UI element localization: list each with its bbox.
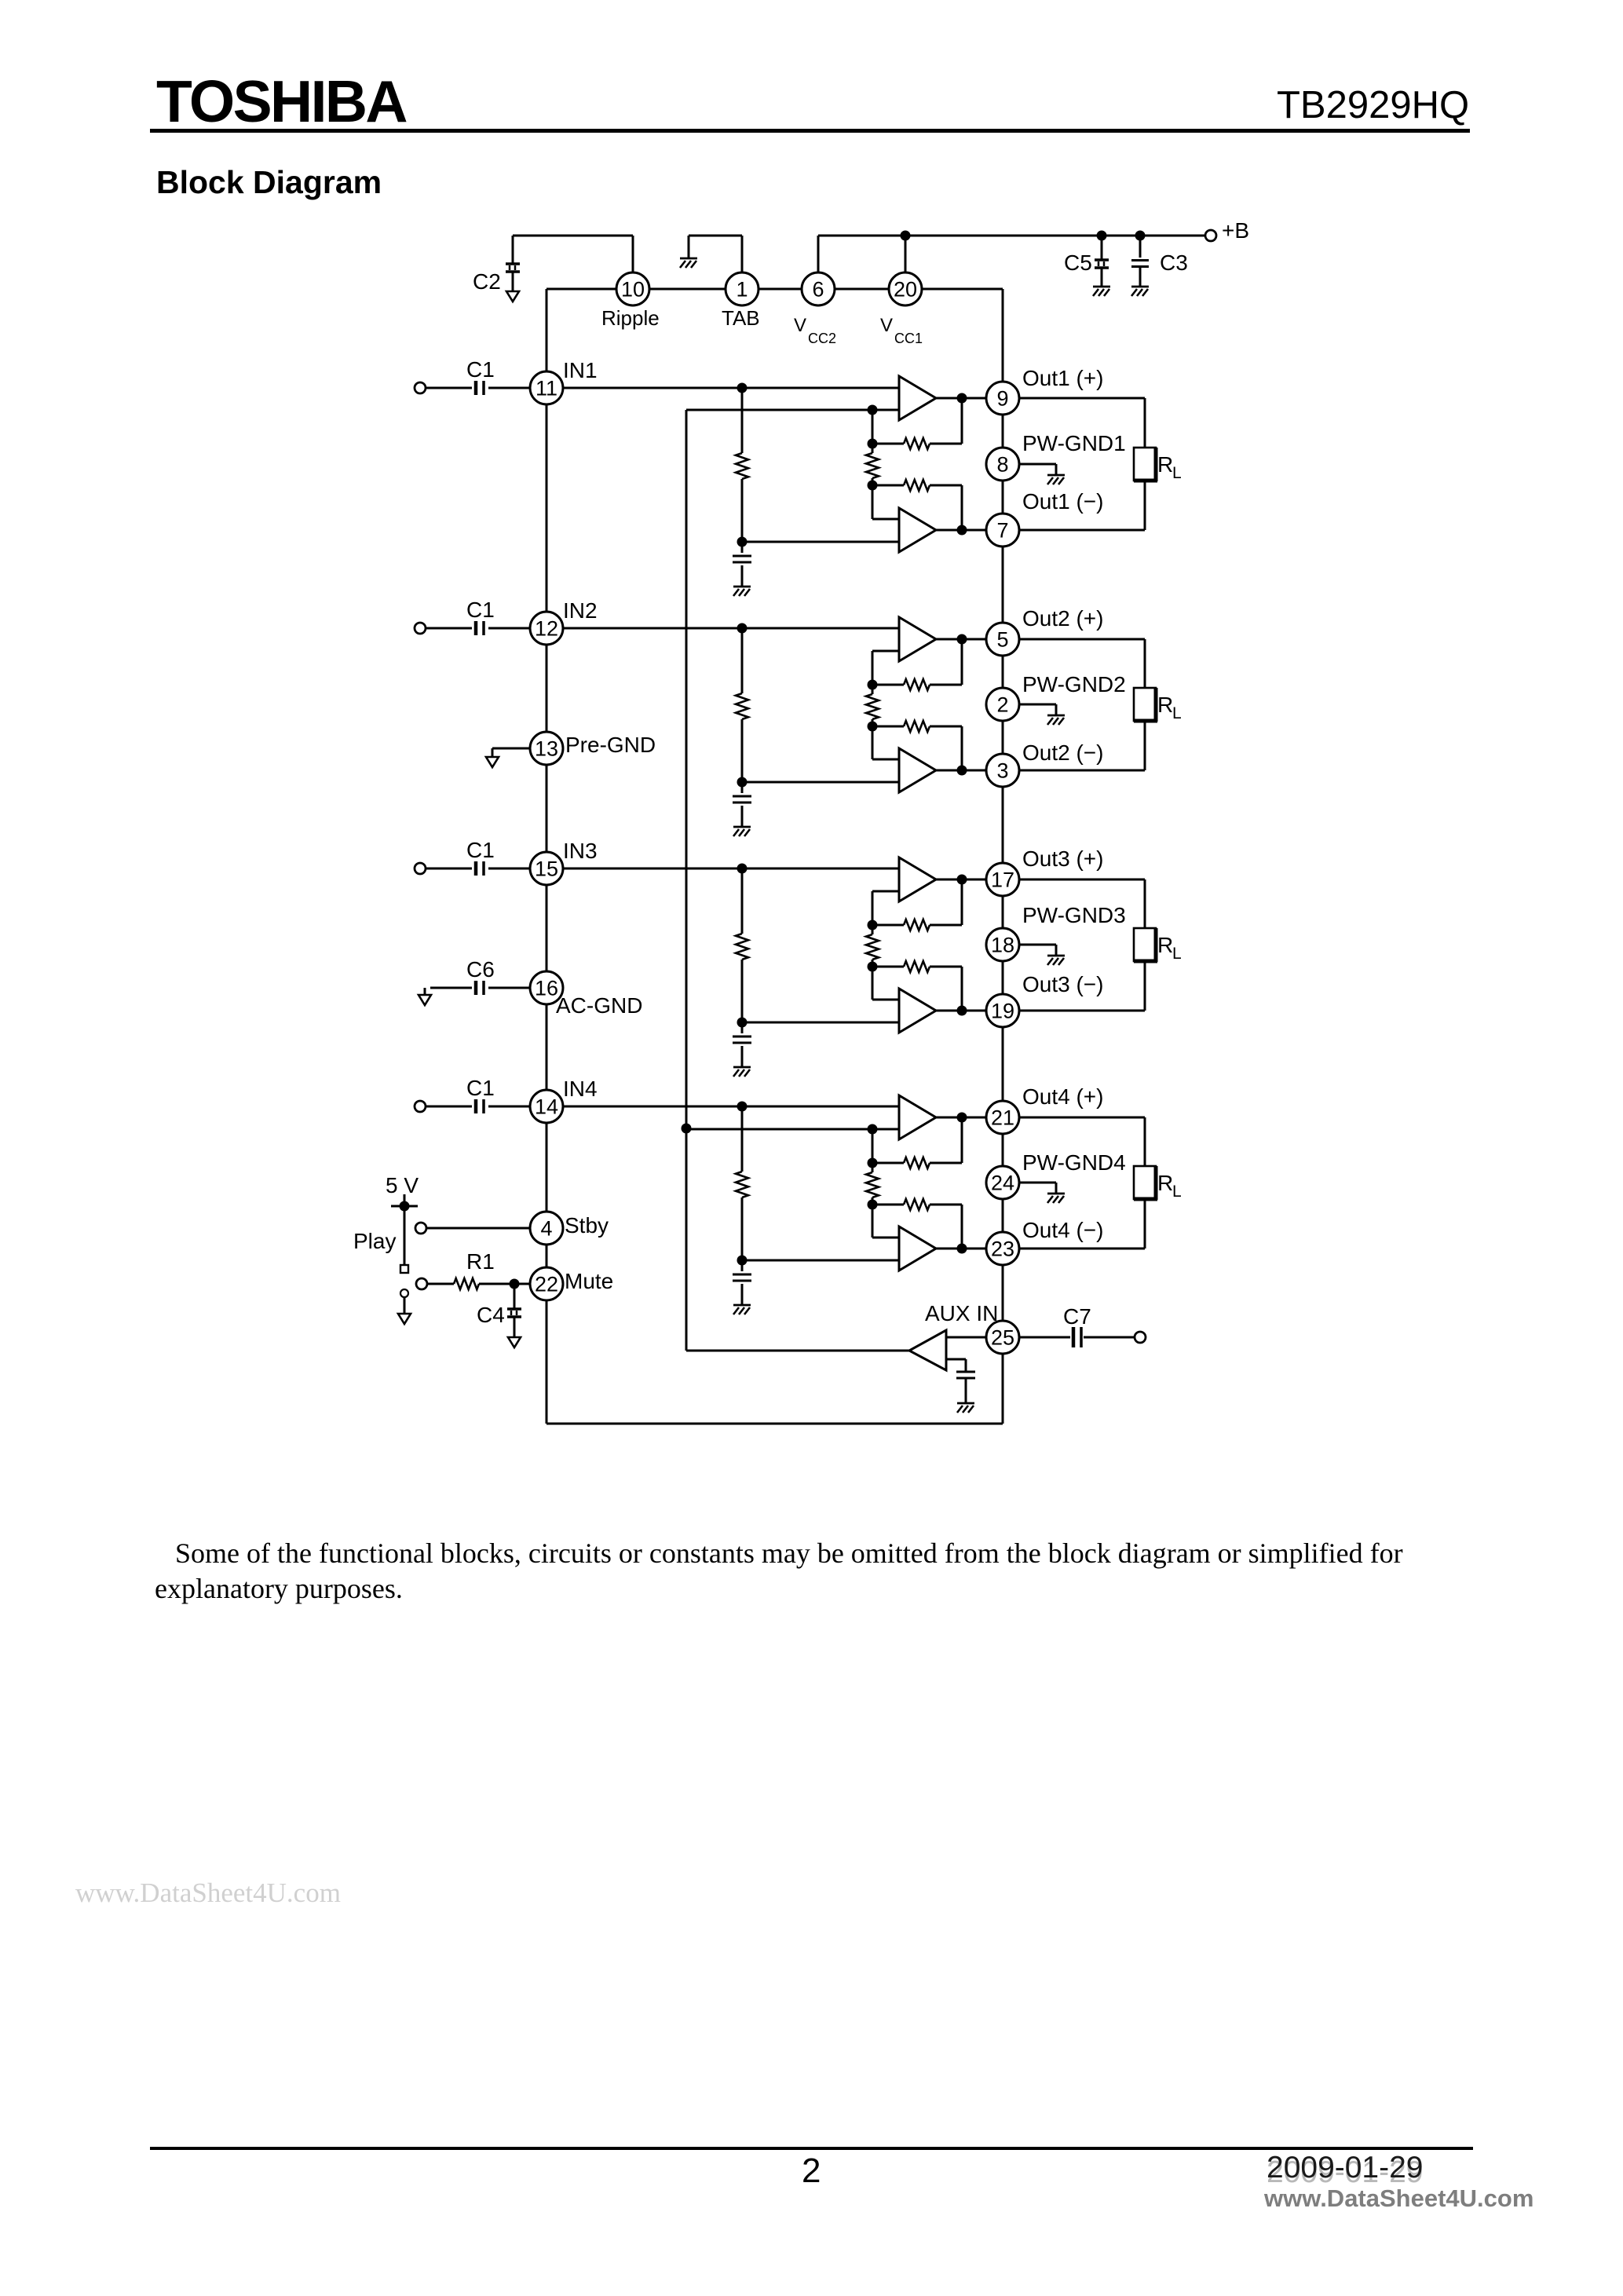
svg-text:Out1 (−): Out1 (−)	[1022, 489, 1103, 514]
svg-text:C3: C3	[1160, 250, 1188, 275]
label Out2 (+)	[1022, 606, 1103, 631]
wire AUX cap stub	[946, 1359, 966, 1371]
arrow to ground (AC-GND)	[419, 995, 431, 1005]
wire pin25 to AUX amp	[946, 1336, 986, 1339]
label IN2	[563, 598, 598, 623]
svg-text:C6: C6	[466, 957, 495, 982]
resistor RL1	[1134, 448, 1157, 481]
svg-text:2: 2	[996, 693, 1008, 717]
op-amp AUX	[909, 1330, 946, 1370]
arrow to -B (C4)	[508, 1337, 521, 1347]
arrow to ground (Pre-GND)	[486, 757, 499, 767]
op-amp A1- (Out1-)	[899, 508, 936, 552]
label C1 (IN4)	[466, 1076, 495, 1100]
svg-text:23: 23	[991, 1238, 1014, 1261]
footer rule	[150, 2147, 1473, 2150]
junction A3- output	[957, 1006, 967, 1016]
wire feedback input ch2	[872, 651, 899, 685]
svg-text:V: V	[794, 315, 806, 336]
wire bias cap lead ch2	[741, 782, 744, 827]
junction A4- output	[957, 1244, 967, 1254]
svg-text:R: R	[1157, 1171, 1173, 1195]
junction Vcc1/+B	[901, 231, 911, 241]
label PW-GND1	[1022, 431, 1126, 455]
svg-text:C1: C1	[466, 838, 495, 862]
capacitor bias ch2	[733, 796, 751, 803]
wire IN4 to amp	[563, 1106, 899, 1108]
wire PW-GND4 stub	[1019, 1183, 1056, 1194]
svg-text:9: 9	[996, 387, 1008, 411]
svg-text:CC1: CC1	[894, 331, 923, 346]
svg-text:17: 17	[991, 868, 1014, 892]
svg-text:7: 7	[996, 519, 1008, 543]
wire RL to Out1-	[1019, 481, 1145, 530]
terminal IN2 input	[415, 623, 426, 634]
resistor bias ch1	[736, 453, 748, 479]
label C2	[473, 269, 501, 294]
capacitor C2	[506, 264, 520, 291]
junction fb node a ch4	[868, 1158, 878, 1168]
terminal IN3 input	[415, 863, 426, 874]
pin 23 Out4-	[986, 1232, 1019, 1265]
ground (TAB)	[680, 258, 697, 268]
wire PW-GND1 stub	[1019, 464, 1056, 475]
ground (PW-GND4)	[1047, 1194, 1065, 1203]
switch pole terminal	[400, 1289, 408, 1297]
svg-text:PW-GND4: PW-GND4	[1022, 1150, 1126, 1175]
wire Out4+ to RL	[1019, 1117, 1145, 1166]
ground (bias ch4)	[733, 1305, 751, 1314]
label Out1 (&#8722;)	[1022, 489, 1103, 514]
wire AUX output to bus	[686, 1350, 909, 1352]
svg-text:21: 21	[991, 1106, 1014, 1130]
title Block Diagram	[156, 164, 382, 201]
capacitor bias ch4	[733, 1274, 751, 1281]
pin 14 IN4	[530, 1090, 563, 1123]
wire A2- output	[936, 770, 986, 772]
wire bias chain ch4	[741, 1106, 744, 1260]
ground (bias ch3)	[733, 1067, 751, 1077]
label Vcc2	[794, 315, 836, 346]
label Out1 (+)	[1022, 366, 1103, 390]
svg-text:L: L	[1172, 1183, 1182, 1201]
resistor fb divider ch2	[866, 685, 879, 726]
label 5 V	[386, 1173, 419, 1197]
svg-text:L: L	[1172, 945, 1182, 963]
resistor fb divider ch3	[866, 925, 879, 967]
capacitor C4	[507, 1309, 521, 1337]
svg-text:5: 5	[996, 628, 1008, 652]
op-amp A3- (Out3-)	[899, 989, 936, 1033]
resistor fb2 ch3	[872, 961, 962, 1011]
wire bias to A3- input	[742, 1022, 899, 1024]
capacitor bias ch1	[733, 556, 751, 562]
label Play	[353, 1229, 396, 1253]
wire bias to A4- input	[742, 1260, 899, 1262]
wire Out3+ to RL	[1019, 879, 1145, 928]
wire Vcc2 up	[817, 236, 820, 272]
svg-text:Out3 (−): Out3 (−)	[1022, 972, 1103, 996]
svg-text:L: L	[1172, 704, 1182, 722]
svg-text:1: 1	[736, 278, 748, 302]
svg-text:IN1: IN1	[563, 358, 598, 382]
label AUX IN	[925, 1301, 998, 1325]
note paragraph	[155, 1536, 1419, 1607]
svg-text:+B: +B	[1222, 218, 1249, 243]
junction bias bottom ch1	[737, 537, 748, 547]
label Out3 (+)	[1022, 846, 1103, 871]
junction A1- output	[957, 525, 967, 536]
pin 1 TAB	[726, 272, 758, 305]
label C4	[477, 1303, 505, 1327]
svg-text:13: 13	[535, 737, 558, 761]
resistor bias ch2	[736, 693, 748, 719]
svg-text:C1: C1	[466, 357, 495, 382]
wire A4+ output	[936, 1117, 986, 1119]
svg-text:Mute: Mute	[565, 1269, 613, 1293]
junction C3/+B	[1135, 231, 1146, 241]
label C1 (IN3)	[466, 838, 495, 862]
wire bias cap lead ch4	[741, 1260, 744, 1305]
svg-text:Out2 (+): Out2 (+)	[1022, 606, 1103, 631]
wire A1+ output	[936, 397, 986, 400]
svg-text:AC-GND: AC-GND	[556, 993, 642, 1018]
svg-text:IN4: IN4	[563, 1077, 598, 1101]
terminal IN4 input	[415, 1101, 426, 1112]
junction A4+ output	[957, 1113, 967, 1123]
junction 5V	[400, 1201, 410, 1212]
label C7	[1063, 1304, 1091, 1329]
wire RL to Out2-	[1019, 721, 1145, 770]
svg-text:V: V	[880, 315, 893, 336]
svg-text:IN3: IN3	[563, 839, 598, 863]
wire feedback input ch3	[872, 891, 899, 925]
resistor fb1 ch3	[872, 879, 962, 930]
wire fb to A2- input	[872, 726, 899, 759]
svg-text:22: 22	[535, 1273, 558, 1296]
svg-text:12: 12	[535, 617, 558, 641]
svg-text:PW-GND3: PW-GND3	[1022, 903, 1126, 927]
pin 8 PW-GND1	[986, 448, 1019, 481]
svg-text:24: 24	[991, 1172, 1014, 1195]
pin 6 Vcc2	[802, 272, 835, 305]
label Out3 (&#8722;)	[1022, 972, 1103, 996]
wire Out2+ to RL	[1019, 639, 1145, 688]
label PW-GND4	[1022, 1150, 1126, 1175]
wire A3+ output	[936, 879, 986, 881]
junction A2+ output	[957, 634, 967, 645]
junction fb node b ch4	[868, 1200, 878, 1210]
label PW-GND3	[1022, 903, 1126, 927]
capacitor C1 (IN3)	[476, 861, 484, 876]
wire bias chain ch3	[741, 868, 744, 1022]
junction feedback input ch1	[868, 405, 878, 415]
junction feedback input ch4	[868, 1124, 878, 1135]
svg-text:Out4 (+): Out4 (+)	[1022, 1084, 1103, 1109]
arrow to -B (C2)	[506, 291, 519, 302]
wire C3 lead	[1139, 236, 1142, 258]
svg-text:R: R	[1157, 452, 1173, 477]
wire C4 lead	[514, 1284, 516, 1308]
op-amp A4- (Out4-)	[899, 1227, 936, 1270]
label C1 (IN2)	[466, 598, 495, 622]
wire input 1	[426, 387, 530, 389]
resistor fb2 ch4	[872, 1199, 962, 1249]
pin 5 Out2+	[986, 623, 1019, 656]
svg-text:19: 19	[991, 1000, 1014, 1023]
pin 16 AC-GND	[530, 971, 563, 1004]
label C3	[1160, 250, 1188, 275]
op-amp A2- (Out2-)	[899, 748, 936, 792]
junction bias tap 2	[737, 623, 748, 634]
wire feedback input ch4	[686, 1129, 899, 1163]
resistor fb1 ch1	[872, 398, 962, 449]
resistor RL4	[1134, 1166, 1157, 1200]
label TAB	[722, 306, 760, 330]
label PW-GND2	[1022, 672, 1126, 696]
TOSHIBA logo	[156, 68, 406, 135]
junction fb node a ch3	[868, 920, 878, 930]
wire bias chain ch1	[741, 388, 744, 542]
label R1	[466, 1249, 495, 1274]
pin 15 IN3	[530, 852, 563, 885]
ground (bias ch2)	[733, 827, 751, 836]
svg-text:TAB: TAB	[722, 306, 760, 330]
junction bias bottom ch4	[737, 1256, 748, 1266]
resistor fb divider ch4	[866, 1163, 879, 1205]
terminal +B	[1205, 230, 1216, 241]
pin 4 Stby	[530, 1212, 563, 1245]
wire A2+ output	[936, 638, 986, 641]
header rule	[150, 129, 1470, 133]
label IN3	[563, 839, 598, 863]
junction fb node a ch2	[868, 680, 878, 690]
capacitor C5	[1095, 260, 1109, 287]
svg-text:L: L	[1172, 464, 1182, 482]
label IN1	[563, 358, 598, 382]
wire switch to arrow	[404, 1297, 406, 1314]
wire IN1 to amp	[563, 387, 899, 389]
capacitor bias ch3	[733, 1036, 751, 1043]
wire A3- output	[936, 1010, 986, 1012]
wire Out1+ to RL	[1019, 398, 1145, 448]
wire fb to A3- input	[872, 967, 899, 1000]
capacitor C3	[1131, 261, 1149, 287]
op-amp A1+ (Out1+)	[899, 376, 936, 420]
junction A3+ output	[957, 875, 967, 885]
terminal Mute	[416, 1278, 427, 1289]
wire AC-GND	[425, 988, 530, 995]
wire Vcc1 up	[905, 236, 907, 272]
ground (bias ch1)	[733, 587, 751, 596]
capacitor C1 (IN1)	[476, 381, 484, 395]
svg-text:15: 15	[535, 857, 558, 881]
pin 10 Ripple	[616, 272, 649, 305]
svg-text:R: R	[1157, 933, 1173, 957]
junction fb node a ch1	[868, 439, 878, 449]
wire C2 lead	[512, 236, 514, 263]
svg-text:3: 3	[996, 759, 1008, 783]
svg-text:18: 18	[991, 934, 1014, 957]
pin 18 PW-GND3	[986, 928, 1019, 961]
wire AUX cap to ground	[965, 1379, 967, 1403]
junction Mute/C4	[510, 1279, 520, 1289]
label C5	[1064, 250, 1092, 275]
resistor fb2 ch1	[872, 480, 962, 530]
svg-text:Out2 (−): Out2 (−)	[1022, 740, 1103, 765]
label AC-GND	[556, 993, 642, 1018]
svg-text:R: R	[1157, 693, 1173, 717]
wire internal bus	[685, 410, 688, 1351]
svg-text:11: 11	[536, 377, 557, 400]
op-amp A4+ (Out4+)	[899, 1095, 936, 1139]
switch contact (Play)	[400, 1265, 408, 1273]
label Pre-GND	[565, 733, 656, 757]
svg-text:PW-GND2: PW-GND2	[1022, 672, 1126, 696]
op-amp A2+ (Out2+)	[899, 617, 936, 661]
IC block outline	[546, 289, 1003, 1424]
datasheet url	[1264, 2184, 1533, 2213]
svg-text:PW-GND1: PW-GND1	[1022, 431, 1126, 455]
svg-text:25: 25	[991, 1326, 1014, 1350]
ground (C3)	[1131, 287, 1149, 296]
wire bias chain ch2	[741, 628, 744, 782]
svg-text:6: 6	[812, 278, 824, 302]
wire RL to Out4-	[1019, 1199, 1145, 1249]
page number	[802, 2152, 821, 2191]
wire Mute to R1	[427, 1283, 454, 1285]
date shadow	[1267, 2155, 1424, 2190]
resistor RL2	[1134, 688, 1157, 722]
capacitor C6	[476, 981, 484, 995]
wire 5V rail	[391, 1194, 418, 1265]
resistor fb divider ch1	[866, 444, 879, 485]
junction A1+ output	[957, 393, 967, 404]
pin 12 IN2	[530, 612, 563, 645]
resistor RL3	[1134, 928, 1157, 962]
pin 13 Pre-GND	[530, 732, 563, 765]
watermark	[75, 1877, 341, 1909]
wire C5 lead	[1101, 236, 1103, 259]
junction bias tap 4	[737, 1102, 748, 1112]
ground (AUX)	[957, 1403, 974, 1413]
junction bus/ch4 feedback	[682, 1124, 692, 1134]
wire input 2	[426, 627, 530, 630]
label Out4 (+)	[1022, 1084, 1103, 1109]
terminal Stby	[415, 1223, 426, 1234]
svg-text:CC2: CC2	[808, 331, 836, 346]
wire C7 to terminal	[1084, 1336, 1135, 1339]
capacitor C1 (IN2)	[476, 621, 484, 635]
junction bias tap 3	[737, 864, 748, 874]
wire fb to A1- input	[872, 485, 899, 519]
junction C5/+B	[1097, 231, 1107, 241]
terminal AUX input	[1135, 1332, 1146, 1343]
wire bias cap lead ch1	[741, 542, 744, 587]
label RL1	[1157, 452, 1182, 482]
junction A2- output	[957, 766, 967, 776]
wire R1 to pin 22	[479, 1283, 530, 1285]
svg-text:C5: C5	[1064, 250, 1092, 275]
terminal IN1 input	[415, 382, 426, 393]
svg-text:C1: C1	[466, 598, 495, 622]
wire PW-GND2 stub	[1019, 704, 1056, 715]
svg-text:Ripple: Ripple	[601, 306, 660, 330]
ground (PW-GND2)	[1047, 715, 1065, 725]
wire Stby	[426, 1227, 530, 1230]
svg-text:C4: C4	[477, 1303, 505, 1327]
svg-text:Out4 (−): Out4 (−)	[1022, 1218, 1103, 1242]
svg-text:10: 10	[621, 278, 645, 302]
svg-text:IN2: IN2	[563, 598, 598, 623]
wire C2 to pin 10	[513, 236, 633, 272]
pin 17 Out3+	[986, 863, 1019, 896]
pin 21 Out4+	[986, 1101, 1019, 1134]
pin 9 Out1+	[986, 382, 1019, 415]
junction fb node b ch2	[868, 722, 878, 732]
wire input 3	[426, 868, 530, 870]
pin 2 PW-GND2	[986, 688, 1019, 721]
label C6	[466, 957, 495, 982]
junction fb node b ch1	[868, 481, 878, 491]
wire PW-GND3 stub	[1019, 945, 1056, 956]
svg-text:Stby: Stby	[565, 1213, 609, 1238]
wire A1- output	[936, 529, 986, 532]
svg-text:R1: R1	[466, 1249, 495, 1274]
resistor R1	[454, 1278, 479, 1289]
label RL4	[1157, 1171, 1182, 1201]
junction bias tap 1	[737, 383, 748, 393]
wire IN3 to amp	[563, 868, 899, 870]
label Out4 (&#8722;)	[1022, 1218, 1103, 1242]
svg-text:14: 14	[535, 1095, 558, 1119]
resistor bias ch3	[736, 934, 748, 960]
wire bias to A2- input	[742, 781, 899, 784]
svg-text:C7: C7	[1063, 1304, 1091, 1329]
pin 19 Out3-	[986, 994, 1019, 1027]
resistor bias ch4	[736, 1172, 748, 1197]
wire Pre-GND	[492, 748, 530, 757]
junction fb node b ch3	[868, 962, 878, 972]
pin 7 Out1-	[986, 514, 1019, 547]
wire bias to A1- input	[742, 541, 899, 543]
svg-text:AUX IN: AUX IN	[925, 1301, 998, 1325]
capacitor AUX	[956, 1372, 975, 1378]
wire TAB to ground	[689, 236, 742, 272]
label Vcc1	[880, 315, 923, 346]
svg-text:C1: C1	[466, 1076, 495, 1100]
pin 25 AUX IN	[986, 1321, 1019, 1354]
label Ripple	[601, 306, 660, 330]
label RL3	[1157, 933, 1182, 963]
resistor fb1 ch2	[872, 639, 962, 690]
svg-text:8: 8	[996, 453, 1008, 477]
pin 22 Mute	[530, 1267, 563, 1300]
wire +B rail	[818, 235, 1205, 237]
capacitor C1 (IN4)	[476, 1099, 484, 1113]
pin 11 IN1	[530, 371, 563, 404]
op-amp A3+ (Out3+)	[899, 857, 936, 901]
svg-text:Out3 (+): Out3 (+)	[1022, 846, 1103, 871]
date	[1267, 2151, 1424, 2185]
ground (PW-GND3)	[1047, 956, 1065, 965]
ground (C5)	[1093, 287, 1110, 296]
wire fb to A4- input	[872, 1205, 899, 1238]
ground (PW-GND1)	[1047, 475, 1065, 484]
arrow to ground (switch)	[398, 1314, 411, 1324]
junction bias bottom ch3	[737, 1018, 748, 1028]
label RL2	[1157, 693, 1182, 722]
